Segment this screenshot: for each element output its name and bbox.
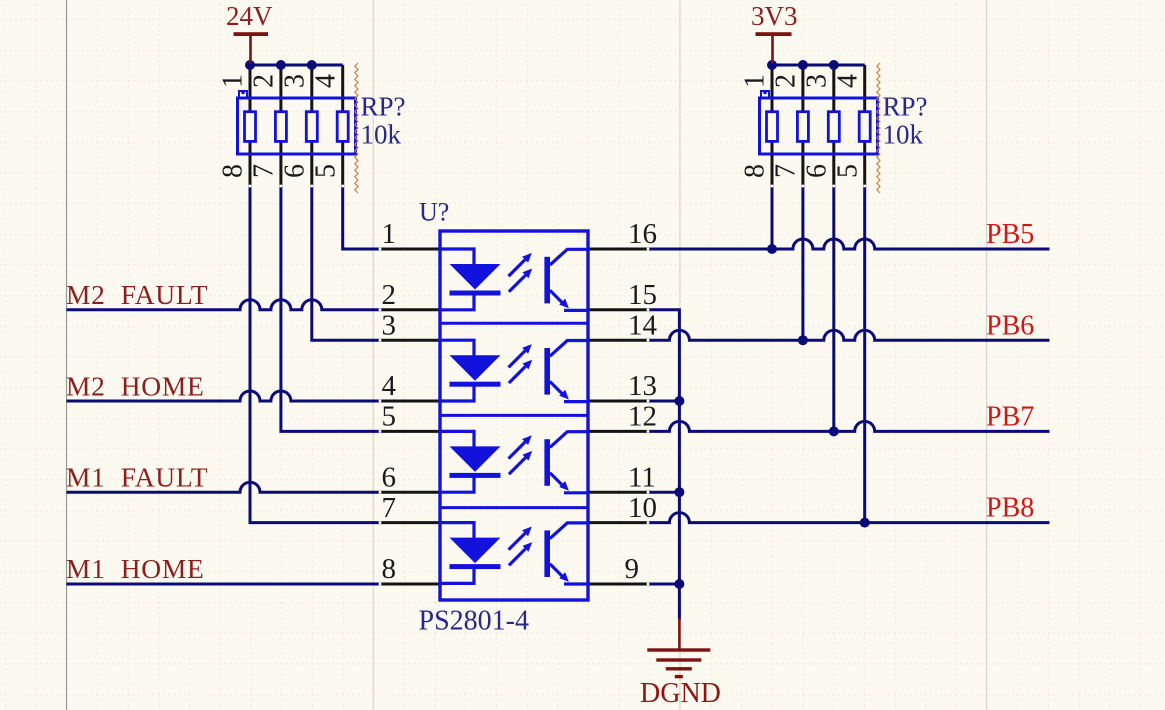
svg-text:7: 7 [382, 492, 397, 524]
wire RP1 pin8 to U pin7 [250, 186, 380, 523]
wire RP1 pin5 to U pin1 [343, 186, 380, 249]
wire net PB6 [648, 330, 1050, 340]
svg-text:PB8: PB8 [986, 493, 1034, 524]
svg-text:15: 15 [628, 279, 657, 311]
junction RP2 pin6 / PB7 [829, 426, 839, 436]
svg-text:4: 4 [382, 370, 397, 402]
wire RP1 pin7 to U pin5 [281, 186, 380, 431]
svg-text:11: 11 [628, 461, 656, 493]
svg-text:3V3: 3V3 [751, 1, 798, 31]
optocoupler channel 3 [440, 431, 588, 492]
svg-text:M1 HOME: M1 HOME [66, 553, 205, 584]
svg-text:PB6: PB6 [986, 310, 1034, 341]
op-amp U? optocoupler body PS2801-4 [440, 231, 588, 600]
svg-text:PB5: PB5 [986, 219, 1034, 250]
U? left pins 1-8 stubs [380, 249, 440, 584]
wire net M1_HOME [67, 583, 381, 586]
U pin numbers left 1-8 [382, 218, 397, 585]
sheet border line [66, 0, 68, 710]
wire emitter bus U pin15 down to ground [648, 310, 679, 620]
optocoupler channel 1 [440, 249, 588, 310]
junction RP2 pin8 / PB5 [767, 244, 777, 254]
resistor pack RP? (left, 10k) [218, 60, 406, 193]
junction RP2 pin5 / PB8 [860, 518, 870, 528]
wire 24V rail to RP1 top pins [250, 64, 343, 67]
svg-text:12: 12 [628, 401, 657, 433]
power symbol 3V3 [751, 1, 798, 63]
power symbol 24V [226, 1, 273, 63]
svg-text:1: 1 [382, 218, 397, 250]
wire net PB5 [648, 239, 1050, 249]
svg-text:M2 HOME: M2 HOME [66, 370, 205, 401]
wire 3V3 rail to RP2 top pins [772, 64, 865, 67]
resistor pack RP? (right, 10k) [740, 60, 928, 193]
svg-text:6: 6 [382, 461, 397, 493]
wire net M2_FAULT [67, 300, 381, 310]
junction RP2 pin7 / PB6 [798, 335, 808, 345]
wire net M2_HOME [67, 391, 381, 401]
wire RP2 pin8 drop to PB5 [771, 186, 774, 249]
wire net M1_FAULT [67, 482, 381, 492]
optocoupler channel 2 [440, 340, 588, 401]
svg-text:U?: U? [419, 198, 449, 227]
ground symbol DGND [640, 618, 721, 709]
svg-text:PB7: PB7 [986, 402, 1034, 433]
optocoupler channel 4 [440, 523, 588, 584]
svg-text:DGND: DGND [640, 678, 721, 709]
svg-text:10: 10 [628, 492, 657, 524]
svg-text:2: 2 [382, 279, 397, 311]
svg-text:13: 13 [628, 370, 657, 402]
svg-text:8: 8 [382, 553, 397, 585]
svg-text:14: 14 [628, 309, 658, 341]
wire U pin11 to emitter bus [648, 491, 679, 494]
svg-text:16: 16 [628, 218, 657, 250]
svg-text:M1 FAULT: M1 FAULT [66, 462, 208, 493]
U pin numbers right 16-9 [625, 218, 658, 585]
svg-text:9: 9 [625, 553, 640, 585]
svg-text:PS2801-4: PS2801-4 [419, 606, 529, 637]
wire net PB8 [648, 513, 1050, 523]
svg-text:3: 3 [382, 309, 397, 341]
wire RP2 pin5 drop to PB8 [863, 186, 866, 523]
wire net PB7 [648, 421, 1050, 431]
junction emitter bus / pin13 [674, 396, 684, 406]
wire RP1 pin6 to U pin3 [312, 186, 380, 340]
wire RP2 pin6 drop to PB7 [832, 186, 835, 431]
svg-text:M2 FAULT: M2 FAULT [66, 279, 208, 310]
U? right pins 16-9 stubs [588, 249, 648, 584]
svg-text:5: 5 [382, 401, 397, 433]
wire U pin13 to emitter bus [648, 400, 679, 403]
junction emitter bus / pin9 [674, 579, 684, 589]
wire RP2 pin7 drop to PB6 [801, 186, 804, 340]
svg-text:24V: 24V [226, 1, 273, 31]
wire U pin9 to emitter bus [648, 583, 679, 586]
junction emitter bus / pin11 [674, 487, 684, 497]
pin endpoint markers [249, 185, 866, 586]
